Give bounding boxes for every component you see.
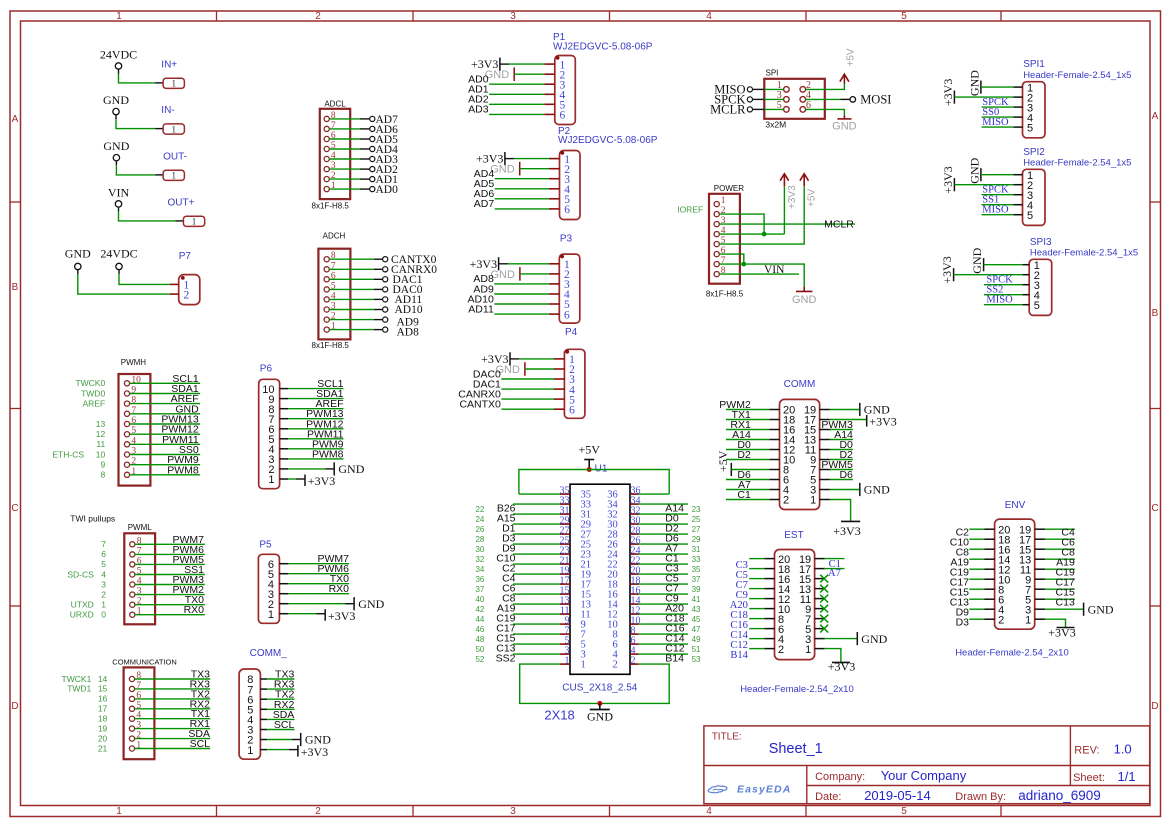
SPI pin 2 <box>800 80 811 92</box>
COMM pin 15 <box>804 425 830 437</box>
svg-text:32: 32 <box>475 555 484 564</box>
P4 pin 5 <box>554 394 575 406</box>
svg-text:3x2M: 3x2M <box>765 120 786 130</box>
SPI3 pin 2 <box>1022 270 1040 282</box>
wire SDA to COMM_ <box>267 709 294 721</box>
svg-text:P7: P7 <box>179 251 192 262</box>
net flag GND to port OUT- <box>103 139 187 181</box>
P1 pin 2 <box>544 69 565 81</box>
EST pin 3 <box>805 634 825 646</box>
wire C16 to U1 pin 8 <box>639 623 702 635</box>
svg-text:+3V3: +3V3 <box>328 609 355 623</box>
wire GND to P1 pin 2 <box>485 67 545 81</box>
svg-text:Date:: Date: <box>815 791 841 803</box>
EST left wire pin 18 <box>736 560 765 571</box>
wire TX2 to COMM_ <box>267 689 294 701</box>
SPI pin 4 <box>800 90 811 102</box>
net label SS0 at SPI1 <box>982 107 1014 118</box>
svg-text:WJ2EDGVC-5.08-06P: WJ2EDGVC-5.08-06P <box>558 135 658 146</box>
U1 pin 36 <box>607 485 640 500</box>
wire C4 to ENV pin 19 <box>1045 526 1075 538</box>
COMM pin 12 <box>769 445 795 457</box>
wire C4 to U1 pin 17 <box>475 573 560 585</box>
svg-text:1: 1 <box>1025 614 1031 626</box>
svg-text:GND: GND <box>587 709 613 723</box>
P5 pin 2 <box>268 599 289 611</box>
svg-text:OUT+: OUT+ <box>168 197 195 208</box>
svg-text:5: 5 <box>1027 122 1033 134</box>
svg-text:1: 1 <box>171 125 176 135</box>
SPI2 pin 4 <box>1013 200 1033 212</box>
U1 pin 15 <box>560 585 592 600</box>
U1 pin 17 <box>560 575 592 590</box>
COMM pin 8 <box>769 465 789 477</box>
wire C5 to U1 pin 18 <box>639 573 702 585</box>
svg-text:43: 43 <box>692 605 701 614</box>
wire C10 to ENV pin 18 <box>950 536 985 548</box>
svg-text:0: 0 <box>101 610 106 620</box>
net flag VIN to port OUT+ <box>108 185 205 227</box>
ADCH pin 6 wire DAC1 <box>324 271 423 286</box>
svg-text:Header-Female-2.54_1x5: Header-Female-2.54_1x5 <box>1023 158 1131 169</box>
svg-text:SPI2: SPI2 <box>1023 147 1045 158</box>
connector SPI3 <box>1029 237 1138 316</box>
PWMH pin 4 wire PWM11 <box>96 434 200 449</box>
PWML pin 8 wire PWM7 <box>101 534 205 549</box>
wire PWM13 to P6 <box>288 408 343 420</box>
svg-text:51: 51 <box>692 645 701 654</box>
wire TX1 to COMM <box>726 409 769 421</box>
connector SPI2 <box>1023 147 1132 226</box>
P6 pin 4 <box>268 444 288 456</box>
net label SS1 at SPI2 <box>982 194 1014 205</box>
PWMH pin 7 wire GND <box>124 403 200 416</box>
COMM pin 17 <box>804 415 830 427</box>
svg-text:53: 53 <box>692 655 701 664</box>
svg-text:34: 34 <box>475 565 484 574</box>
svg-text:Header-Female-2.54_2x10: Header-Female-2.54_2x10 <box>740 684 854 695</box>
power +3V3 at COMM pin 17 <box>830 415 897 429</box>
COMM pin 11 <box>805 445 830 457</box>
svg-text:18: 18 <box>98 714 108 724</box>
EST pin 8 <box>764 614 784 626</box>
SPI1 pin 5 <box>1013 122 1033 134</box>
svg-text:POWER: POWER <box>714 184 744 193</box>
COMMUNICATION pin 1 wire SCL <box>98 738 210 753</box>
COMM_ pin 3 <box>247 725 267 737</box>
PWMH pin 8 wire AREF <box>83 393 201 408</box>
svg-text:WJ2EDGVC-5.08-06P: WJ2EDGVC-5.08-06P <box>553 41 653 52</box>
SPI pin 1 <box>777 80 790 92</box>
svg-text:RX0: RX0 <box>329 583 350 595</box>
ground GND at COMM pin 19 <box>830 403 890 417</box>
ENV pin 17 <box>1019 534 1045 546</box>
svg-text:1: 1 <box>810 495 816 507</box>
svg-text:AD11: AD11 <box>468 303 494 315</box>
wire SCL1 to P6 <box>288 378 343 390</box>
COMM pin 7 <box>810 465 830 477</box>
COMMUNICATION pin 6 wire TX2 <box>98 688 210 703</box>
P1 pin 5 <box>544 100 565 112</box>
svg-text:A7: A7 <box>828 568 841 579</box>
PWML pin 2 wire TX0 <box>101 594 205 609</box>
svg-text:1: 1 <box>171 172 176 182</box>
wire CANRX0 to P4 pin 5 <box>458 388 554 400</box>
svg-text:D: D <box>1151 701 1158 712</box>
svg-text:24: 24 <box>475 515 484 524</box>
svg-text:5: 5 <box>901 11 907 22</box>
svg-text:1: 1 <box>805 644 811 656</box>
wire POWER pin3 to MCLR <box>719 219 855 231</box>
U1 pin 29 <box>560 515 592 530</box>
svg-text:2019-05-14: 2019-05-14 <box>864 788 931 803</box>
COMM pin 20 <box>769 405 795 417</box>
wire PWM3 to COMM <box>821 419 853 431</box>
P6 pin 10 <box>262 384 288 396</box>
svg-text:C: C <box>1151 503 1158 514</box>
EST pin 4 <box>764 634 784 646</box>
wire C15 to ENV pin 8 <box>950 586 985 598</box>
wire AD10 to P3 pin 5 <box>468 293 549 305</box>
ENV pin 14 <box>984 554 1010 566</box>
svg-text:AD10: AD10 <box>395 304 423 316</box>
wire PWM8 to P6 <box>288 448 343 460</box>
SPI2 pin 2 <box>1013 180 1033 192</box>
svg-text:+5V: +5V <box>846 48 857 66</box>
no-connect X at EST pin 5 <box>820 625 828 633</box>
wire GND to P7 pin2 <box>78 274 170 294</box>
title block <box>704 726 1150 804</box>
power +5V at COMM pin 8 <box>716 450 769 476</box>
U1 pin 20 <box>607 565 640 580</box>
POWER pin 1 <box>714 196 726 207</box>
svg-text:1: 1 <box>247 745 253 757</box>
ground GND at ENV pin 3 <box>1045 602 1114 616</box>
svg-text:2: 2 <box>612 660 617 671</box>
svg-text:TWCK1: TWCK1 <box>62 674 92 684</box>
svg-text:8x1F-H8.5: 8x1F-H8.5 <box>312 202 350 211</box>
svg-text:GND: GND <box>864 483 890 497</box>
svg-text:1: 1 <box>268 474 274 486</box>
U1 pin 27 <box>560 525 592 540</box>
svg-text:URXD: URXD <box>70 610 94 620</box>
EasyEDA logo <box>708 783 791 795</box>
connector ADCH <box>312 231 438 350</box>
svg-text:1: 1 <box>565 655 570 666</box>
svg-text:ETH-CS: ETH-CS <box>52 449 84 459</box>
svg-text:RX0: RX0 <box>184 604 205 616</box>
svg-text:P5: P5 <box>259 539 272 550</box>
svg-text:COMMUNICATION: COMMUNICATION <box>112 658 176 667</box>
P6 pin 1 <box>268 474 288 486</box>
wire D6 to COMM <box>830 469 853 481</box>
EST pin 13 <box>799 584 825 596</box>
power +3V3 at SPI2 pin2 <box>941 166 1014 193</box>
U1 pin 33 <box>560 495 592 510</box>
P3 pin 5 <box>549 299 570 311</box>
COMM pin 3 <box>810 485 830 497</box>
wire C2 to U1 pin 19 <box>475 563 560 575</box>
svg-text:EST: EST <box>784 530 803 541</box>
P2 pin 1 <box>549 154 570 166</box>
COMMUNICATION pin 4 wire TX1 <box>98 708 210 723</box>
wire C13 to U1 pin 3 <box>475 643 560 655</box>
svg-text:47: 47 <box>692 625 701 634</box>
COMM_ pin 2 <box>247 735 267 747</box>
PWML pin 1 wire RX0 <box>101 604 205 619</box>
svg-text:AD0: AD0 <box>376 184 399 196</box>
svg-text:A: A <box>12 114 19 125</box>
svg-text:D3: D3 <box>956 616 970 628</box>
svg-text:VIN: VIN <box>108 185 130 199</box>
wire C10 to U1 pin 21 <box>475 553 560 565</box>
svg-text:GND: GND <box>967 70 981 96</box>
svg-text:37: 37 <box>692 575 701 584</box>
wire C14 to U1 pin 6 <box>639 633 702 645</box>
COMM pin 18 <box>769 415 795 427</box>
svg-text:GND: GND <box>103 139 129 153</box>
U1 pin 16 <box>607 585 640 600</box>
power +3V3 at P5 pin1 <box>288 609 355 623</box>
U1 pin 9 <box>560 615 586 630</box>
ADCH pin 4 wire AD11 <box>324 291 422 306</box>
power +3V3 at EST pin 1 <box>824 649 855 674</box>
connector P3 <box>559 233 580 323</box>
svg-text:20: 20 <box>98 733 108 743</box>
wire D0 to COMM <box>726 439 769 451</box>
svg-text:23: 23 <box>692 505 701 514</box>
wire AD4 to P2 pin 3 <box>474 168 549 180</box>
ENV pin 20 <box>984 524 1010 536</box>
connector P6 <box>259 363 280 488</box>
ADCH pin 3 wire AD10 <box>324 302 423 317</box>
svg-text:4: 4 <box>101 569 106 579</box>
wire RX3 to COMM_ <box>267 679 294 691</box>
wire A15 to U1 pin 29 <box>475 513 560 525</box>
COMM pin 1 <box>810 495 830 507</box>
svg-text:5: 5 <box>1027 210 1033 222</box>
svg-text:B14: B14 <box>730 650 748 661</box>
svg-text:26: 26 <box>475 525 484 534</box>
wire A19 to ENV pin 13 <box>1045 556 1075 568</box>
svg-text:1: 1 <box>721 196 726 206</box>
P5 pin 4 <box>268 579 289 591</box>
P4 pin 4 <box>554 384 575 396</box>
svg-text:B: B <box>12 282 19 293</box>
wire C6 to U1 pin 15 <box>475 583 560 595</box>
wire C17 to U1 pin 7 <box>475 623 560 635</box>
ground GND at SPI3 pin1 <box>970 247 1022 273</box>
svg-text:1: 1 <box>101 600 106 610</box>
wire D1 to U1 pin 27 <box>475 523 560 535</box>
wire DAC1 to P4 pin 4 <box>473 378 554 390</box>
PWMH pin 6 wire PWM13 <box>96 414 200 429</box>
P2 pin 5 <box>549 194 570 206</box>
ENV pin 4 <box>984 604 1004 616</box>
ADCL pin 1 wire AD0 <box>324 181 398 196</box>
svg-text:1: 1 <box>116 806 122 817</box>
wire A7 to U1 pin 24 <box>639 543 702 555</box>
svg-text:2: 2 <box>783 495 789 507</box>
wire AD9 to P3 pin 4 <box>473 283 549 295</box>
connector COMM <box>780 379 820 509</box>
wire POWER pin6 to junction <box>719 254 744 264</box>
ground GND at SPI1 pin1 <box>967 70 1013 96</box>
wire C7 to U1 pin 16 <box>639 583 702 595</box>
COMM pin 9 <box>810 455 830 467</box>
svg-text:TWI pullups: TWI pullups <box>70 514 115 524</box>
EST pin 5 <box>805 624 825 636</box>
wire C1 to COMM <box>726 489 769 501</box>
POWER pin 2 <box>714 206 726 217</box>
svg-text:1.0: 1.0 <box>1114 741 1132 756</box>
wire C15 to U1 pin 5 <box>475 633 560 645</box>
ADCH pin 1 wire AD8 <box>324 322 419 339</box>
power +3V3 at P6 pin1 <box>288 474 335 488</box>
connector PWML <box>124 523 155 624</box>
ENV pin 13 <box>1019 554 1045 566</box>
svg-text:GND: GND <box>490 269 515 281</box>
SPI1 pin 3 <box>1013 102 1033 114</box>
wire RX2 to COMM_ <box>267 699 294 711</box>
svg-text:35: 35 <box>692 565 701 574</box>
PWML pin 3 wire PWM2 <box>101 584 205 599</box>
COMM pin 19 <box>804 405 830 417</box>
SPI2 pin 5 <box>1013 210 1033 222</box>
PWMH pin 10 wire SCL1 <box>75 373 200 388</box>
wire D3 to ENV pin 2 <box>956 616 985 628</box>
P2 pin 2 <box>549 164 570 176</box>
PWMH pin 1 wire PWM8 <box>100 464 200 479</box>
U1 pin 13 <box>560 595 592 610</box>
ENV pin 1 <box>1025 614 1045 626</box>
COMM pin 6 <box>769 475 789 487</box>
wire 24VDC to P7 pin1 <box>119 274 170 284</box>
svg-text:adriano_6909: adriano_6909 <box>1018 788 1101 803</box>
wire AD6 to P2 pin 5 <box>474 188 549 200</box>
svg-text:PWMH: PWMH <box>121 358 147 367</box>
EST pin 18 <box>764 564 790 576</box>
svg-text:+3V3: +3V3 <box>828 659 855 673</box>
wire A14 to COMM <box>726 429 769 441</box>
svg-text:9: 9 <box>100 460 105 470</box>
no-connect X at EST pin 9 <box>820 605 828 613</box>
net label C1 at EST pin 17 <box>824 559 845 570</box>
P6 pin 7 <box>268 414 288 426</box>
U1 pin 21 <box>560 555 592 570</box>
P1 pin 3 <box>544 79 565 91</box>
svg-text:14: 14 <box>98 674 108 684</box>
U1 pin 10 <box>607 615 640 630</box>
EST pin 19 <box>799 554 825 566</box>
COMMUNICATION pin 8 wire TX3 <box>98 669 210 684</box>
svg-text:31: 31 <box>692 545 701 554</box>
COMM_ pin 4 <box>247 715 267 727</box>
COMM pin 10 <box>769 455 795 467</box>
U1 pin 24 <box>607 545 640 560</box>
U1 pin 18 <box>607 575 640 590</box>
EST pin 17 <box>799 564 825 576</box>
svg-text:C13: C13 <box>1056 596 1075 608</box>
svg-text:GND: GND <box>792 294 817 306</box>
U1 pin 23 <box>560 545 592 560</box>
U1 pin 31 <box>560 505 592 520</box>
svg-text:11: 11 <box>96 439 105 449</box>
svg-text:1: 1 <box>171 80 176 90</box>
wire D2 to COMM <box>726 449 769 461</box>
P4 pin 6 <box>554 404 575 416</box>
ENV pin 8 <box>984 584 1004 596</box>
wire C9 to U1 pin 14 <box>639 593 702 605</box>
svg-text:6: 6 <box>560 110 566 122</box>
U1 pin 3 <box>560 645 586 660</box>
svg-text:42: 42 <box>475 605 484 614</box>
svg-text:TITLE:: TITLE: <box>712 731 742 742</box>
EST left wire pin 10 <box>730 600 765 611</box>
ADCL pin 4 wire AD3 <box>324 151 398 166</box>
no-connect X at EST pin 15 <box>820 575 828 583</box>
wire C15 to ENV pin 7 <box>1045 586 1075 598</box>
svg-text:P6: P6 <box>260 363 273 374</box>
svg-text:Header-Female-2.54_1x5: Header-Female-2.54_1x5 <box>1023 70 1131 81</box>
svg-text:45: 45 <box>692 615 701 624</box>
SPI3 pin 3 <box>1022 280 1040 292</box>
svg-text:GND: GND <box>338 462 364 476</box>
power +3V3 at COMM pin 1 <box>830 500 861 539</box>
U1 pin 34 wire <box>639 503 689 505</box>
P6 pin 2 <box>268 464 288 476</box>
svg-text:16: 16 <box>98 694 108 704</box>
svg-text:AREF: AREF <box>83 398 106 408</box>
wire PWM6 to P5 <box>288 563 349 575</box>
svg-text:EasyEDA: EasyEDA <box>737 783 791 795</box>
svg-text:3: 3 <box>101 579 106 589</box>
connector COMM_ <box>239 648 287 759</box>
svg-text:1: 1 <box>116 11 122 22</box>
wire GND to P2 pin 2 <box>490 162 549 176</box>
svg-text:GND: GND <box>358 597 384 611</box>
COMMUNICATION pin 2 wire SDA <box>98 728 210 743</box>
wire C13 to ENV pin 5 <box>1045 596 1075 608</box>
wire C8 to ENV pin 16 <box>956 546 985 558</box>
EST pin 6 <box>764 624 784 636</box>
svg-text:4: 4 <box>706 806 712 817</box>
EST pin 11 <box>800 594 825 606</box>
wire C18 to U1 pin 10 <box>639 613 702 625</box>
svg-text:19: 19 <box>98 723 108 733</box>
PWMH pin 2 wire PWM9 <box>100 454 200 469</box>
SPI3 pin 4 <box>1022 290 1040 302</box>
svg-text:MCLR: MCLR <box>824 219 854 231</box>
wire C17 to ENV pin 9 <box>1045 576 1075 588</box>
svg-text:+3V3: +3V3 <box>833 524 860 538</box>
net flag 24VDC to port IN+ <box>100 48 185 90</box>
P3 pin 2 <box>549 269 570 281</box>
wire DAC0 to P4 pin 3 <box>473 368 554 380</box>
wire A14 to U1 pin 32 <box>639 503 702 515</box>
svg-text:IOREF: IOREF <box>677 204 703 214</box>
wire C19 to ENV pin 12 <box>950 566 985 578</box>
EST pin 7 <box>805 614 825 626</box>
U1 pin 33 wire <box>513 503 560 505</box>
ENV pin 5 <box>1025 594 1045 606</box>
svg-text:+3V3: +3V3 <box>1048 625 1075 639</box>
P5 pin 6 <box>268 559 289 571</box>
svg-text:24VDC: 24VDC <box>100 247 137 261</box>
svg-text:2: 2 <box>184 289 190 301</box>
svg-text:2: 2 <box>778 644 784 656</box>
wire GND to P4 pin 2 <box>495 362 554 376</box>
